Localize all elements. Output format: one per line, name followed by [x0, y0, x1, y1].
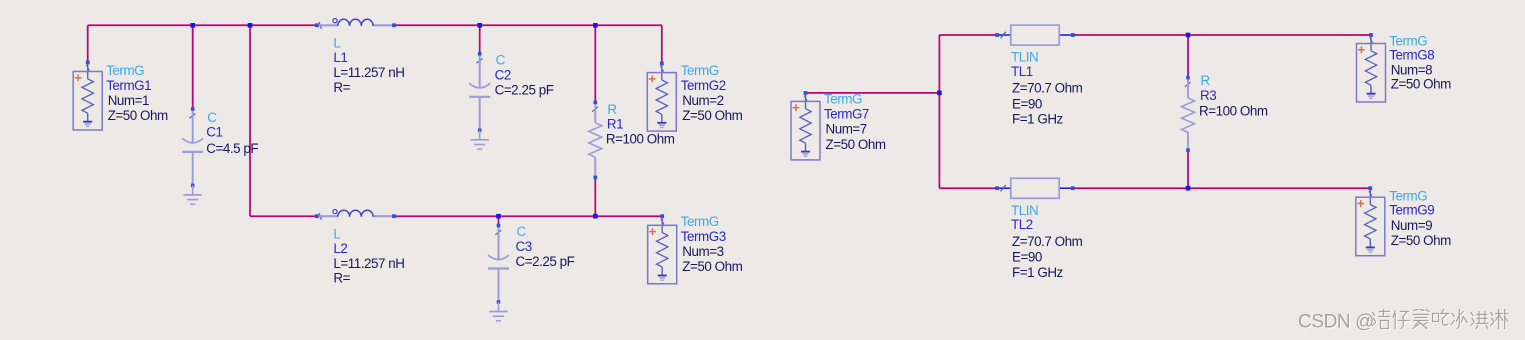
junction R3 / bottom bus [1186, 186, 1191, 191]
svg-text:R3: R3 [1200, 88, 1216, 103]
svg-text:Z=50 Ohm: Z=50 Ohm [826, 137, 886, 152]
svg-text:Z=50 Ohm: Z=50 Ohm [1391, 77, 1451, 92]
ground under C2 [471, 130, 489, 149]
inductor L1 [317, 19, 394, 29]
svg-text:Num=1: Num=1 [108, 93, 149, 108]
svg-text:L=11.257 nH: L=11.257 nH [333, 65, 404, 80]
ground under C3 [489, 302, 507, 321]
node C3 pin 1 [497, 224, 501, 228]
label TL1 [1011, 50, 1083, 127]
svg-text:Z=50 Ohm: Z=50 Ohm [682, 108, 742, 123]
svg-text:C=2.25 pF: C=2.25 pF [495, 82, 554, 97]
wire C1 drop [192, 25, 194, 109]
node C1 pin 1 [191, 107, 195, 111]
svg-text:L2: L2 [333, 241, 347, 256]
node TermG8 pin 1 [1369, 33, 1373, 37]
wire left spine [249, 25, 251, 216]
svg-text:Num=7: Num=7 [826, 122, 867, 137]
wire R1 bottom [594, 177, 596, 216]
svg-text:TermG3: TermG3 [681, 229, 726, 244]
inductor L2 [317, 210, 394, 220]
node TermG7 pin 1 [804, 91, 808, 95]
svg-text:TermG2: TermG2 [681, 78, 726, 93]
svg-text:C2: C2 [495, 67, 511, 82]
svg-text:Num=9: Num=9 [1391, 218, 1432, 233]
svg-text:R=: R= [333, 271, 350, 286]
label TermG8 [1389, 34, 1451, 92]
svg-text:C: C [207, 110, 217, 125]
svg-text:TL1: TL1 [1011, 64, 1033, 79]
svg-text:L: L [333, 226, 340, 241]
node L1 pin 2 [392, 23, 396, 27]
wire right spine [938, 35, 940, 188]
node TL1 pin 1 [995, 33, 999, 37]
term TermG1 [73, 62, 102, 130]
wire TL1 left [939, 34, 997, 36]
svg-text:TermG: TermG [106, 63, 144, 78]
wire R3 bottom [1187, 150, 1189, 188]
wire TermG7 feed [806, 92, 940, 94]
junction C1 / top bus [190, 23, 195, 28]
svg-text:Num=2: Num=2 [682, 93, 723, 108]
svg-text:TermG7: TermG7 [824, 106, 869, 121]
wire bottom bus left [250, 215, 317, 217]
junction R1 / top bus [593, 23, 598, 28]
label TermG3 [681, 214, 743, 274]
wire R1 top [594, 25, 596, 102]
junction R1 / bottom bus [593, 214, 598, 219]
wire TL1 right [1073, 34, 1371, 36]
svg-text:R=100 Ohm: R=100 Ohm [606, 131, 675, 146]
svg-text:R: R [607, 102, 617, 117]
svg-text:C=4.5 pF: C=4.5 pF [206, 141, 258, 156]
svg-text:C: C [496, 53, 506, 68]
svg-text:TermG: TermG [824, 92, 862, 107]
svg-text:TermG1: TermG1 [106, 78, 151, 93]
term TermG9 [1356, 188, 1385, 256]
svg-text:Z=70.7 Ohm: Z=70.7 Ohm [1012, 81, 1083, 96]
node TermG9 pin 1 [1368, 186, 1372, 190]
svg-text:TLIN: TLIN [1011, 50, 1038, 65]
svg-text:C3: C3 [516, 239, 532, 254]
label C2 [495, 53, 554, 98]
capacitor C1 [182, 109, 203, 185]
term TermG7 [791, 93, 820, 160]
svg-text:TermG: TermG [1389, 188, 1427, 203]
junction R3 / top bus [1186, 33, 1191, 38]
svg-text:F=1 GHz: F=1 GHz [1012, 112, 1064, 127]
svg-text:TermG: TermG [681, 63, 719, 78]
node C1 pin 2 [191, 184, 195, 188]
label C3 [516, 224, 575, 269]
node TL2 pin 2 [1071, 186, 1075, 190]
ground under C1 [184, 185, 202, 204]
svg-text:E=90: E=90 [1012, 250, 1042, 265]
label L2 [333, 226, 404, 285]
wire TL2 right [1073, 187, 1371, 189]
svg-text:R=: R= [333, 80, 350, 95]
label TermG9 [1389, 188, 1451, 248]
svg-text:L1: L1 [333, 50, 347, 65]
node L2 pin 1 [315, 214, 319, 218]
node C2 pin 1 [478, 52, 482, 56]
svg-text:Num=3: Num=3 [682, 244, 723, 259]
svg-text:R1: R1 [607, 116, 623, 131]
term TermG8 [1357, 35, 1386, 102]
svg-text:R=100 Ohm: R=100 Ohm [1199, 104, 1268, 119]
node L2 pin 2 [392, 214, 396, 218]
junction C3 / bottom bus [496, 214, 501, 219]
watermark hanzi [1373, 310, 1509, 330]
svg-text:E=90: E=90 [1012, 96, 1042, 111]
capacitor C3 [488, 226, 509, 303]
node R1 pin 2 [594, 176, 598, 180]
wire TL2 left [939, 187, 997, 189]
svg-text:R: R [1201, 73, 1211, 88]
node TermG3 pin 1 [660, 214, 664, 218]
node TermG2 pin 1 [660, 62, 664, 66]
node R3 pin 2 [1186, 148, 1190, 152]
wire TermG1 riser [87, 25, 89, 62]
wire bottom bus right [394, 215, 662, 217]
wire TermG2 riser [661, 25, 663, 63]
label TermG7 [824, 92, 886, 153]
transmission line TL1 [997, 25, 1073, 45]
wire R3 top [1187, 35, 1189, 78]
label TermG1 [106, 63, 168, 123]
wire top bus left [88, 24, 317, 26]
svg-text:TermG8: TermG8 [1389, 47, 1434, 62]
watermark CSDN [1298, 312, 1375, 334]
label TermG2 [681, 63, 743, 123]
svg-text:C: C [517, 224, 527, 239]
svg-text:Z=70.7 Ohm: Z=70.7 Ohm [1012, 234, 1083, 249]
label L1 [333, 36, 404, 95]
term TermG2 [647, 63, 676, 131]
node R3 pin 1 [1186, 76, 1190, 80]
junction TermG7 / right spine [937, 91, 942, 96]
node L1 pin 1 [315, 23, 319, 27]
svg-text:TermG: TermG [681, 214, 719, 229]
svg-text:Z=50 Ohm: Z=50 Ohm [108, 108, 168, 123]
svg-text:TermG9: TermG9 [1389, 203, 1434, 218]
svg-text:L=11.257 nH: L=11.257 nH [333, 256, 404, 271]
node C3 pin 2 [497, 300, 501, 304]
resistor R3 [1182, 78, 1195, 151]
svg-text:Z=50 Ohm: Z=50 Ohm [682, 259, 742, 274]
svg-text:F=1 GHz: F=1 GHz [1012, 265, 1064, 280]
label R1 [606, 102, 675, 147]
node C2 pin 2 [478, 129, 482, 133]
svg-text:Z=50 Ohm: Z=50 Ohm [1391, 233, 1451, 248]
svg-text:C=2.25 pF: C=2.25 pF [516, 254, 575, 269]
junction C2 / top bus [477, 23, 482, 28]
svg-text:TLIN: TLIN [1011, 203, 1038, 218]
node TL2 pin 1 [995, 186, 999, 190]
capacitor C2 [469, 54, 490, 131]
node TL1 pin 2 [1071, 33, 1075, 37]
label R3 [1199, 73, 1268, 118]
node R1 pin 1 [594, 101, 598, 105]
label C1 [206, 110, 258, 156]
svg-text:L: L [333, 36, 340, 51]
wire C3 drop [498, 216, 500, 225]
svg-text:Num=8: Num=8 [1391, 62, 1432, 77]
svg-text:TL2: TL2 [1011, 217, 1033, 232]
junction left spine / top bus [248, 23, 253, 28]
svg-text:C1: C1 [206, 125, 222, 140]
wire C2 drop [479, 25, 481, 54]
wire top bus right [394, 24, 662, 26]
label TL2 [1011, 203, 1083, 280]
term TermG3 [648, 216, 677, 284]
resistor R1 [589, 102, 602, 177]
svg-text:CSDN @: CSDN @ [1298, 312, 1374, 333]
node TermG1 pin 1 [86, 61, 90, 65]
transmission line TL2 [997, 178, 1073, 198]
